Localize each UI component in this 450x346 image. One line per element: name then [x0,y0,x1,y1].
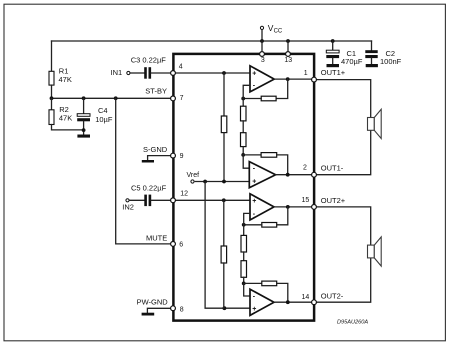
pin 2 circle [312,172,317,177]
node VCC junction [260,39,264,43]
svg-text:S-GND: S-GND [143,145,168,154]
wire U1B output [276,174,314,176]
wire C1 stub [332,41,334,50]
pin 12 circle [171,198,176,203]
capacitor C3 [144,67,151,79]
svg-text:OUT2+: OUT2+ [321,196,346,205]
capacitor C2 [365,50,378,67]
node bias2 bottom junction [223,306,227,310]
wire pin3 stub [261,41,263,51]
svg-text:2: 2 [303,164,307,171]
wire PW-GND [147,308,173,312]
wire R1 bottom stub [51,85,53,98]
resistor fb3 [262,223,277,228]
svg-text:470µF: 470µF [341,57,363,66]
svg-text:PW-GND: PW-GND [137,297,169,306]
svg-text:15: 15 [302,197,310,204]
wire U1A feedback loop [276,79,288,98]
wire gain chain 1 lower [242,147,244,155]
terminal IN2 [126,199,129,202]
op-amp U1C [250,194,274,220]
wire C3 to pin4 [151,72,173,74]
resistor bias1 [221,116,227,133]
wire OUT2+ to speaker [314,207,371,245]
svg-text:47K: 47K [59,113,72,122]
node bias1 bottom junction [222,180,226,184]
pin 15 circle [312,205,317,210]
resistor chain2b [241,261,247,278]
wire fb4 loop to output [277,283,288,302]
pin 4 circle [171,71,176,76]
node U1B output junction [286,173,290,177]
node U1C minus junction [242,223,246,227]
capacitor C1 [326,50,339,67]
svg-text:Vref: Vref [187,172,200,179]
wire bias2 lower [223,263,225,308]
svg-text:13: 13 [284,57,292,64]
wire U1B minus input [243,155,249,168]
node pin13 junction [286,39,290,43]
pin 1 circle [312,77,317,82]
wire U1C minus input [244,213,250,224]
svg-text:C4: C4 [98,106,108,115]
resistor chain2a [241,235,247,252]
op-amp U1B [249,162,275,188]
pin 14 circle [312,300,317,305]
wire ST-BY horizontal [52,97,174,99]
wire U1C output [274,206,314,208]
svg-text:R1: R1 [59,66,69,75]
node R1 R2 junction [50,96,54,100]
svg-text:C3 0.22µF: C3 0.22µF [131,55,167,64]
svg-text:CC: CC [274,29,283,35]
wire fb2 left [243,154,261,156]
resistor R2 [49,98,84,130]
resistor fb2 [261,153,277,158]
wire fb2 loop to output [277,155,288,175]
wire R1 top stub [51,41,53,71]
terminal VCC [260,26,263,29]
wire gain chain 2 mid [243,252,245,261]
capacitor C4 [77,98,90,134]
svg-text:C5 0.22µF: C5 0.22µF [131,183,167,192]
node U1D minus junction [242,282,246,286]
svg-text:47K: 47K [59,75,72,84]
wire OUT1+ to speaker [314,80,371,118]
pin 3 circle [260,52,265,57]
wire IN1 to C3 [130,72,144,74]
wire pin12 to op-amp U1C + [173,199,250,201]
node U1D output junction [286,300,290,304]
wire IN2 to C5 [129,199,144,201]
node U1A minus junction [241,97,245,101]
wire OUT1- to speaker [314,130,371,174]
resistor chain1b [241,133,247,147]
svg-text:3: 3 [261,57,265,64]
svg-text:IN2: IN2 [122,203,134,212]
node C1 junction [331,39,335,43]
ground PW-GND [142,313,155,316]
IC U1 outline [173,54,314,321]
wire Vref to op-amp U1B + [195,181,250,183]
speaker LS1 [368,109,382,138]
svg-text:IN1: IN1 [111,68,123,77]
svg-text:D95AU260A: D95AU260A [337,319,368,325]
svg-text:ST-BY: ST-BY [145,86,167,95]
wire rail to C2 top [371,41,373,50]
op-amp U1D [250,289,274,315]
speaker LS2 [368,237,382,266]
wire S-GND [148,156,173,160]
node bias1 top junction [222,71,226,75]
svg-text:6: 6 [179,241,183,248]
resistor chain1a [241,106,247,121]
wire bias1 lower [223,133,225,182]
wire U1A minus input [243,85,250,98]
wire pin13 stub [287,41,289,51]
node U1B minus junction [241,153,245,157]
node C4 top junction [82,96,86,100]
svg-text:OUT1-: OUT1- [321,163,344,172]
wire U1D minus input [244,283,250,296]
wire MUTE branch [116,98,173,244]
node C4 R2 junction [82,128,86,132]
wire fb3 to minus node [244,224,262,226]
svg-text:1: 1 [304,70,308,77]
svg-text:4: 4 [179,63,183,70]
wire pin4 to op-amp U1A + [173,72,250,74]
svg-text:+: + [252,179,256,186]
svg-text:OUT1+: OUT1+ [321,68,346,77]
wire gain chain 1 upper [242,99,244,107]
wire OUT2- to speaker [314,258,371,302]
wire C5 to pin12 [151,199,173,201]
svg-text:+: + [252,306,256,313]
pin 13 circle [286,52,291,57]
pin 7 circle [171,96,176,101]
terminal Vref [191,180,194,183]
wire gain chain 2 lower [243,277,245,283]
wire bias2 upper [223,200,225,246]
node bias2 top junction [222,198,226,202]
svg-text:+: + [252,198,256,205]
wire bias1 upper [223,73,225,116]
svg-text:9: 9 [180,153,184,160]
resistor R1 [49,71,54,85]
resistor fb1 [261,96,276,101]
svg-text:+: + [252,70,256,77]
wire VCC terminal stub [261,31,263,41]
wire U1D output [274,301,314,303]
ground S-GND [142,160,154,163]
wire U1C feedback loop [277,207,288,225]
ground C4 [77,135,90,138]
wire Vref vertical to bottom [205,182,252,309]
wire gain chain 2 upper [243,225,245,236]
svg-text:OUT2-: OUT2- [321,292,344,301]
node MUTE branch junction [114,96,118,100]
op-amp U1A [250,66,274,92]
wire fb1 to minus node [243,98,261,100]
pin 6 circle [171,242,176,247]
terminal IN1 [127,71,130,74]
resistor bias2 [221,246,227,263]
pin 8 circle [171,306,176,311]
svg-text:12: 12 [180,190,188,197]
node U1A output junction [286,77,290,81]
wire gain chain 1 mid [242,121,244,133]
svg-text:14: 14 [302,294,310,301]
capacitor C5 [144,195,151,207]
resistor fb4 [262,281,277,286]
svg-text:100nF: 100nF [380,57,402,66]
wire U1A output [274,78,314,80]
wire VCC rail [52,40,372,42]
svg-text:MUTE: MUTE [146,234,167,243]
node Vref drop junction [203,180,207,184]
svg-text:8: 8 [180,306,184,313]
node U1C output junction [286,205,290,209]
wire fb4 left [244,282,262,284]
pin 9 circle [171,153,176,158]
svg-text:7: 7 [180,95,184,102]
svg-text:10µF: 10µF [95,115,113,124]
